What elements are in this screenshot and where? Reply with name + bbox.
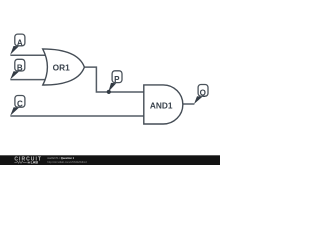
- output flag Q: [194, 85, 208, 105]
- footer text line 2: url: [47, 160, 87, 164]
- svg-text:C: C: [17, 100, 23, 109]
- canvas background: [0, 0, 220, 165]
- svg-text:P: P: [114, 75, 120, 84]
- svg-text:B: B: [17, 64, 23, 73]
- svg-text:A: A: [17, 38, 23, 47]
- svg-text:OR1: OR1: [53, 62, 70, 72]
- svg-text:Q: Q: [200, 88, 206, 97]
- wire C (flag C to AND1 lower input): [10, 115, 143, 117]
- OR gate OR1 body: [43, 49, 85, 85]
- svg-text:LAB: LAB: [31, 161, 39, 165]
- wire OR1 output to AND1 upper input (net P): [84, 67, 143, 92]
- footer bar: [0, 155, 220, 165]
- wire A (flag A to OR1 input): [10, 54, 46, 56]
- net flag P: [108, 71, 122, 92]
- wire B (flag B to OR1 input): [10, 79, 46, 81]
- wire AND1 output to flag Q: [183, 103, 195, 105]
- input flag C: [10, 96, 25, 116]
- footer text line 1: user / title: [47, 156, 74, 160]
- svg-text:AND1: AND1: [150, 101, 173, 111]
- CircuitLab logo: resistor zigzag: [14, 161, 26, 163]
- input flag A: [10, 34, 25, 55]
- node P junction dot: [107, 90, 111, 94]
- input flag B: [10, 59, 25, 79]
- AND gate AND1 body: [144, 85, 183, 124]
- CircuitLab logo: small equals block: [28, 162, 30, 164]
